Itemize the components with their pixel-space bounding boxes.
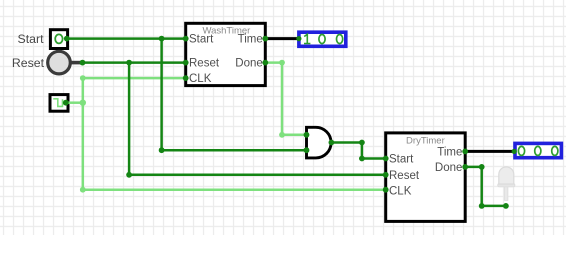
wire DryTimer.Done right — [465, 166, 482, 169]
button Reset — [48, 51, 82, 74]
node Start branch junction — [159, 36, 165, 42]
and-gate G1 — [307, 127, 332, 158]
bus WashTimer.Timer to D1 — [265, 37, 299, 40]
node clock output — [63, 100, 69, 106]
pin WashTimer.CLK — [183, 75, 189, 81]
led L1 — [498, 167, 515, 201]
wire clock riser vertical — [82, 78, 85, 190]
pin WashTimer.Done — [262, 60, 268, 66]
svg-text:Start: Start — [18, 32, 45, 46]
display D1 value 100 — [299, 32, 346, 46]
node Done2 corner top — [479, 164, 485, 170]
wire G1 output down — [361, 143, 364, 159]
pin WashTimer.Timer — [262, 36, 268, 42]
bus DryTimer.Timer to D2 — [465, 150, 514, 153]
node Reset branch junction — [126, 60, 132, 66]
svg-text:Start: Start — [389, 154, 414, 166]
subcircuit U1 WashTimer — [186, 23, 266, 85]
pin DryTimer.Timer — [462, 149, 468, 155]
node Reset branch corner — [126, 172, 132, 178]
wire DryTimer.Done to led L1 — [482, 205, 506, 208]
node clock riser top corner — [80, 75, 86, 81]
clock CLK — [50, 95, 68, 112]
wire clock to WashTimer.CLK — [83, 77, 186, 80]
pin D2 input — [512, 149, 517, 154]
svg-text:DryTimer: DryTimer — [406, 135, 445, 146]
wire WashTimer.Done right — [265, 61, 282, 64]
pin led L1 anode — [503, 203, 509, 209]
wire Start branch to G1 input B — [162, 149, 307, 152]
wire G1 output to DryTimer.Start — [362, 157, 386, 160]
node G1 route corner top — [359, 140, 365, 146]
wire WashTimer.Done to G1 input A — [282, 134, 307, 137]
node Done2 corner bottom — [479, 203, 485, 209]
wire Reset branch down — [128, 63, 131, 175]
svg-text:Reset: Reset — [389, 170, 420, 182]
svg-text:Reset: Reset — [189, 57, 220, 69]
wire Reset button to WashTimer.Reset — [82, 61, 186, 64]
node Start branch corner — [159, 147, 165, 153]
pin DryTimer.Start — [383, 156, 389, 162]
wire Start branch down — [160, 39, 163, 151]
pin WashTimer.Reset — [183, 60, 189, 66]
svg-text:Done: Done — [235, 57, 263, 69]
svg-text:CLK: CLK — [189, 73, 212, 85]
display D2 value 000 — [515, 143, 561, 157]
wire Start pin to WashTimer.Start — [68, 37, 186, 40]
svg-text:Time: Time — [238, 34, 263, 46]
pin DryTimer.Done — [462, 164, 468, 170]
wire WashTimer.Done down — [281, 63, 284, 135]
svg-text:Done: Done — [435, 162, 463, 174]
wire G1 output right — [331, 141, 362, 144]
node G1 route corner bottom — [359, 156, 365, 162]
svg-text:CLK: CLK — [389, 185, 412, 197]
svg-text:Start: Start — [189, 34, 214, 46]
node Done1 corner bottom — [279, 132, 285, 138]
wire Reset branch to DryTimer.Reset — [129, 174, 386, 177]
pin DryTimer.CLK — [383, 187, 389, 193]
pin G1 output — [329, 140, 335, 146]
subcircuit U2 DryTimer — [386, 133, 466, 222]
node Done1 corner top — [279, 60, 285, 66]
input pin Start — [50, 30, 67, 49]
pin DryTimer.Reset — [383, 172, 389, 178]
wire DryTimer.Done down — [480, 167, 483, 206]
node button output — [80, 60, 86, 66]
pin D1 input — [296, 36, 301, 41]
wire clock to DryTimer.CLK — [83, 188, 386, 191]
wire clock to riser — [68, 101, 83, 104]
svg-text:Reset: Reset — [12, 56, 45, 70]
pin G1 input A — [304, 132, 310, 138]
svg-text:Time: Time — [437, 146, 462, 158]
pin WashTimer.Start — [183, 36, 189, 42]
node clock riser junction — [80, 100, 86, 106]
node Start pin output — [64, 36, 70, 42]
pin G1 input B — [304, 147, 310, 153]
node clock riser bottom corner — [80, 187, 86, 193]
